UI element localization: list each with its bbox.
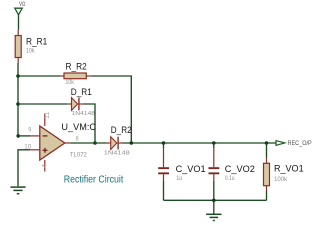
- svg-text:C_VO2: C_VO2: [225, 164, 255, 174]
- svg-text:1N4148: 1N4148: [72, 111, 96, 117]
- wire opamp output to D_R2: [70, 142, 106, 144]
- wire R_VO1 bottom lead: [266, 191, 268, 200]
- svg-text:10k: 10k: [26, 47, 35, 54]
- op-amp U1 body: [40, 126, 65, 160]
- wire R_VO1 top lead: [266, 143, 268, 158]
- pin lead R_VO1 bottom: [266, 186, 268, 191]
- svg-text:10: 10: [24, 145, 32, 151]
- svg-text:100k: 100k: [274, 176, 288, 183]
- svg-text:D_R1: D_R1: [71, 87, 92, 97]
- diode D_R1: [72, 98, 79, 111]
- diode D_R2: [111, 137, 118, 150]
- svg-text:1N4148: 1N4148: [104, 151, 130, 157]
- resistor R_R1: [15, 36, 21, 58]
- pin lead R_R1 top: [17, 30, 19, 36]
- svg-text:VO: VO: [19, 2, 25, 8]
- svg-text:C_VO1: C_VO1: [176, 164, 206, 174]
- pin lead opamp non-inverting: [30, 149, 40, 151]
- node junction rail-R_R2: [16, 74, 20, 78]
- wire left rail: [17, 63, 19, 136]
- pin lead D_R2 cathode: [118, 142, 122, 144]
- ground (op-amp non-inverting): [10, 187, 25, 194]
- svg-text:REC_O/P: REC_O/P: [288, 141, 312, 147]
- wire output bus: [123, 142, 276, 144]
- pin lead R_R2 left: [60, 75, 64, 77]
- node junction feedback: [130, 141, 134, 145]
- svg-text:Rectifier Circuit: Rectifier Circuit: [64, 174, 124, 186]
- wire D_R1 to output node: [84, 104, 96, 143]
- svg-text:10k: 10k: [66, 79, 75, 86]
- op-amp minus symbol: [43, 135, 48, 137]
- terminal REC_O/P: [276, 141, 285, 146]
- svg-text:TL072: TL072: [70, 151, 87, 158]
- pin lead opamp inverting: [30, 135, 40, 137]
- capacitor C_VO1: [158, 148, 169, 181]
- node junction C_VO2: [212, 141, 216, 145]
- resistor R_R2: [64, 73, 86, 79]
- node junction D_R1-output: [93, 141, 97, 145]
- wire C_VO1 top lead: [163, 143, 165, 148]
- wire C_VO2 top lead: [213, 143, 215, 148]
- pin lead D_R2 anode: [107, 142, 111, 144]
- wire bottom rail: [164, 199, 267, 201]
- node junction C_VO1: [162, 141, 166, 145]
- capacitor C_VO2: [209, 148, 220, 181]
- wire non-inverting input to ground: [18, 150, 30, 187]
- pin lead R_R1 bottom: [17, 58, 19, 64]
- pin lead opamp V+ (pin 11): [44, 114, 46, 127]
- pin lead R_R2 right: [86, 75, 90, 77]
- pin lead opamp V- (pin 4): [44, 160, 46, 172]
- svg-text:R_R2: R_R2: [66, 61, 87, 71]
- node junction ground rail: [212, 199, 216, 203]
- wire D_R1 branch left: [18, 103, 67, 105]
- wire R_R2 to feedback node: [90, 76, 131, 143]
- pin lead D_R1 anode: [67, 103, 72, 105]
- svg-text:0.1u: 0.1u: [225, 175, 235, 182]
- wire inverting input: [18, 135, 30, 137]
- pin lead D_R1 cathode: [79, 103, 84, 105]
- node junction rail-opamp: [16, 134, 20, 138]
- node junction rail-D_R1: [16, 102, 20, 106]
- node junction R_VO1: [265, 141, 269, 145]
- svg-text:1u: 1u: [176, 175, 183, 182]
- svg-text:U_VM:C: U_VM:C: [61, 122, 96, 132]
- svg-text:R_VO1: R_VO1: [274, 163, 304, 173]
- svg-text:R_R1: R_R1: [26, 36, 47, 46]
- resistor R_VO1: [264, 163, 270, 185]
- ground (output filter): [206, 214, 221, 220]
- wire ground stem: [213, 200, 215, 214]
- wire R_R2 branch left: [18, 75, 60, 77]
- svg-text:11: 11: [45, 111, 51, 119]
- wire VO terminal to R_R1: [18, 15, 20, 30]
- terminal VO: [15, 8, 22, 15]
- op-amp plus symbol: [43, 148, 48, 153]
- pin lead opamp output: [65, 142, 70, 144]
- pin lead R_VO1 top: [266, 158, 268, 164]
- svg-text:D_R2: D_R2: [111, 125, 132, 135]
- wire C_VO2 bottom lead: [213, 181, 215, 200]
- wire C_VO1 bottom lead: [163, 181, 165, 200]
